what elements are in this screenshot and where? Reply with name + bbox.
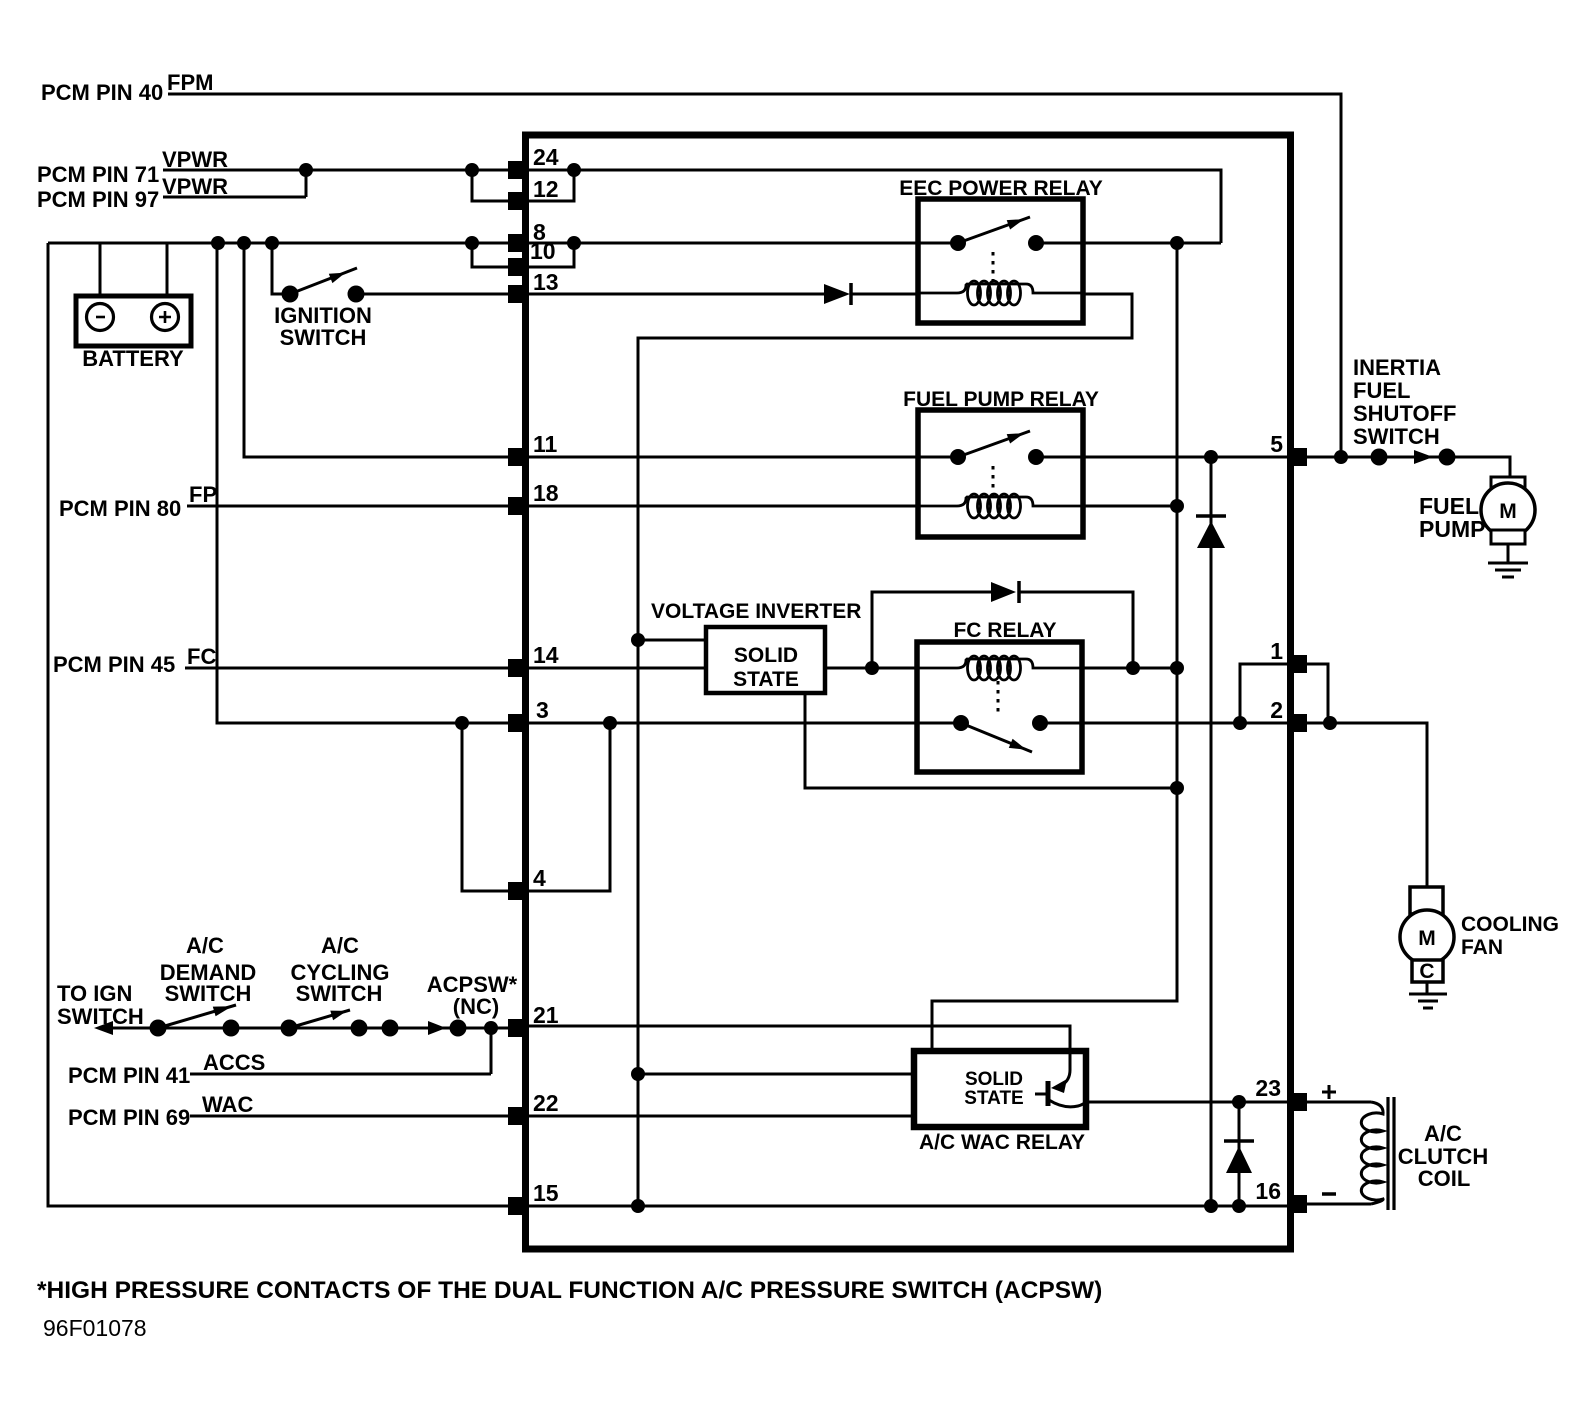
wire jumper pin1 to pin2 inside: [1240, 664, 1288, 723]
big box PCM connector: [526, 135, 1291, 1249]
svg-text:ACCS: ACCS: [203, 1050, 265, 1075]
wire bypass diode branch right leg: [1019, 592, 1133, 668]
plus mark at pin 23: [1322, 1085, 1336, 1099]
ground at fuel pump: [1488, 563, 1528, 577]
svg-text:VOLTAGE INVERTER: VOLTAGE INVERTER: [651, 600, 861, 623]
svg-text:FC RELAY: FC RELAY: [953, 619, 1056, 642]
svg-text:PCM PIN 40: PCM PIN 40: [41, 80, 163, 105]
junction FC coil line to long vertical: [1170, 661, 1184, 675]
EEC switch contacts: [950, 235, 966, 251]
svg-text:13: 13: [533, 269, 559, 295]
wire A/C switch chain to pin 21: [108, 1027, 510, 1030]
EEC dotted actuator link: [992, 252, 995, 286]
pin 21 terminal square: [508, 1019, 527, 1037]
wire bypass diode branch left leg: [872, 592, 991, 668]
svg-text:A/C: A/C: [1424, 1121, 1462, 1146]
arrowhead to ignition switch off-page: [94, 1021, 113, 1035]
svg-text:M: M: [1418, 927, 1436, 950]
svg-text:3: 3: [536, 697, 549, 723]
wire pin23 outside to clutch coil: [1306, 1101, 1371, 1104]
A/C demand switch: [150, 1005, 240, 1037]
pin 13 terminal square: [508, 285, 527, 303]
wire pin15 to pin16 inside run: [527, 1205, 1288, 1208]
junction battery bus to ignition switch: [265, 236, 279, 250]
wire battery negative drop: [99, 243, 102, 296]
pin 10 terminal square: [508, 258, 527, 276]
junction pin 3 inside jumper: [603, 716, 617, 730]
wire clutch diode branch: [1238, 1102, 1241, 1206]
wire jumper pin3 to pin4 inside: [527, 723, 610, 891]
svg-text:A/C: A/C: [321, 933, 359, 958]
svg-text:22: 22: [533, 1090, 559, 1116]
inertia fuel shutoff switch: [1371, 449, 1456, 466]
svg-text:FPM: FPM: [167, 70, 213, 95]
pin 22 terminal square: [508, 1107, 527, 1125]
wire battery bus to pin 8: [48, 242, 524, 245]
diode on 1211 vertical: [1196, 514, 1226, 518]
wire pin11 inside run: [527, 456, 918, 459]
fuel pump motor: [1481, 477, 1535, 563]
diode across A/C clutch coil: [1224, 1139, 1254, 1143]
junction pin 8 inside jumper: [567, 236, 581, 250]
EEC relay internals: [918, 217, 1083, 286]
wire pin13 inside run to diode: [527, 293, 824, 296]
svg-text:15: 15: [533, 1180, 559, 1206]
wire jumper pin24 to pin12 inside: [527, 170, 574, 201]
svg-text:12: 12: [533, 176, 559, 202]
junction ACCS tap on ACPSW line: [484, 1021, 498, 1035]
svg-text:10: 10: [530, 238, 556, 264]
svg-text:18: 18: [533, 480, 559, 506]
relay box FC relay: [917, 642, 1082, 772]
pin 11 terminal square: [508, 448, 527, 466]
pin 8 terminal square: [508, 234, 527, 252]
svg-text:SWITCH: SWITCH: [280, 325, 367, 350]
svg-text:SWITCH: SWITCH: [296, 981, 383, 1006]
svg-text:PCM PIN 41: PCM PIN 41: [68, 1063, 190, 1088]
pin 23 terminal square: [1288, 1093, 1307, 1111]
svg-text:A/C WAC RELAY: A/C WAC RELAY: [919, 1131, 1085, 1154]
svg-text:INERTIA: INERTIA: [1353, 355, 1441, 380]
pin number labels: [530, 144, 1283, 1206]
svg-text:STATE: STATE: [964, 1088, 1023, 1109]
wire left ground rail: [48, 243, 510, 1206]
FPR coil loops: [918, 494, 1083, 518]
wire inverter output to FC coil: [825, 667, 917, 670]
ignition switch: [282, 268, 365, 303]
minus mark at pin 16: [1322, 1192, 1336, 1196]
svg-text:SWITCH: SWITCH: [165, 981, 252, 1006]
FC switch line stubs: [917, 722, 1082, 725]
A/C cycling switch: [281, 1010, 368, 1037]
svg-text:SWITCH: SWITCH: [57, 1004, 144, 1029]
wire ACCS line PCM PIN 41: [190, 1028, 491, 1074]
wire EEC coil out down-left to long vertical: [638, 294, 1132, 1206]
svg-text:FC: FC: [187, 644, 216, 669]
pin 3 terminal square: [508, 714, 527, 732]
EEC coil loops: [918, 281, 1083, 305]
svg-text:SWITCH: SWITCH: [1353, 424, 1440, 449]
svg-text:EEC POWER RELAY: EEC POWER RELAY: [899, 177, 1102, 200]
svg-text:VPWR: VPWR: [162, 174, 228, 199]
relay box fuel pump relay: [918, 410, 1083, 537]
relay box EEC power relay: [918, 199, 1083, 323]
svg-text:FP: FP: [189, 482, 217, 507]
ACPSW NC switch: [382, 1020, 467, 1037]
wire pin2 outside to cooling fan: [1306, 723, 1427, 887]
wire diode branch from pin5 line down: [1210, 457, 1213, 1206]
FPR switch arm: [958, 431, 1030, 457]
svg-text:4: 4: [533, 865, 546, 891]
junction bypass diode return to FC coil: [1126, 661, 1140, 675]
wire pin18 inside run: [527, 505, 918, 508]
EEC switch arm: [958, 217, 1030, 243]
junction FPR coil output: [1170, 499, 1184, 513]
junction pin 5 line to diode branch: [1204, 450, 1218, 464]
svg-text:2: 2: [1270, 697, 1283, 723]
wire jumper pin8 to pin10 inside: [527, 243, 574, 267]
junction inverter output to bypass diode: [865, 661, 879, 675]
FPR dotted actuator link: [992, 466, 995, 498]
junction pin 3 to pin 4 outside jumper: [455, 716, 469, 730]
wire inverter bottom output: [805, 693, 1177, 788]
svg-text:11: 11: [533, 431, 558, 457]
svg-text:BATTERY: BATTERY: [82, 346, 184, 371]
pin 2 terminal square: [1288, 714, 1307, 732]
pin 16 terminal square: [1288, 1195, 1307, 1213]
wire ignition switch feed drop: [272, 243, 283, 294]
svg-text:96F01078: 96F01078: [43, 1315, 147, 1341]
junction long vertical to pin 15 line: [631, 1199, 645, 1213]
svg-text:WAC: WAC: [202, 1092, 253, 1117]
wire jumper pin3 to pin4 outside: [462, 723, 510, 891]
pin 14 terminal square: [508, 659, 527, 677]
wire EEC relay contact output: [1036, 242, 1221, 245]
wire battery positive drop: [166, 243, 169, 296]
svg-text:FAN: FAN: [1461, 936, 1503, 959]
wire WAC line PCM PIN 69 to pin 22: [190, 1115, 524, 1118]
svg-text:PUMP: PUMP: [1419, 516, 1485, 542]
svg-text:A/C: A/C: [186, 933, 224, 958]
junction EEC output to long vertical: [1170, 236, 1184, 250]
svg-text:PCM PIN 97: PCM PIN 97: [37, 187, 159, 212]
svg-text:STATE: STATE: [733, 668, 799, 691]
junction FPM line to pin 5 line: [1334, 450, 1348, 464]
svg-text:SOLID: SOLID: [965, 1069, 1023, 1090]
wire long vertical 1177 to WAC relay: [932, 243, 1177, 1051]
svg-text:COIL: COIL: [1418, 1166, 1471, 1191]
svg-text:FUEL: FUEL: [1353, 378, 1410, 403]
pin 1 terminal square: [1288, 655, 1307, 673]
wire pin8 inside run to EEC relay: [527, 242, 918, 245]
svg-text:5: 5: [1270, 431, 1283, 457]
wire pin24 inside run: [527, 170, 1221, 243]
box A/C WAC relay solid state: [914, 1051, 1086, 1127]
pin 15 terminal square: [508, 1197, 527, 1215]
battery B1: [76, 296, 191, 346]
box voltage inverter solid state: [706, 627, 825, 693]
svg-text:FUEL PUMP RELAY: FUEL PUMP RELAY: [903, 388, 1099, 411]
FC switch arrowhead: [1009, 739, 1027, 750]
wire VPWR from PCM PIN 97: [163, 170, 306, 197]
svg-text:COOLING: COOLING: [1461, 913, 1559, 936]
wire FP line PCM PIN 80: [187, 505, 524, 508]
junction battery bus to pin 11 feed: [237, 236, 251, 250]
wire ignition switch output to pin 13: [356, 293, 510, 296]
pin 18 terminal square: [508, 497, 527, 515]
pin 24 terminal square: [508, 161, 527, 179]
wire WAC output to pin 23: [1086, 1101, 1288, 1104]
svg-text:21: 21: [533, 1002, 559, 1028]
svg-text:*HIGH PRESSURE CONTACTS OF THE: *HIGH PRESSURE CONTACTS OF THE DUAL FUNC…: [37, 1277, 1102, 1304]
junction pin 24 inside jumper: [567, 163, 581, 177]
svg-text:SHUTOFF: SHUTOFF: [1353, 401, 1456, 426]
wire VPWR net from PCM PIN 71: [163, 169, 524, 172]
FC dotted actuator link: [997, 681, 1000, 714]
junction VPWR to pin 12 jumper: [465, 163, 479, 177]
pin squares right edge: [1288, 448, 1307, 1213]
svg-text:14: 14: [533, 642, 559, 668]
FPR switch arrowhead: [1007, 433, 1024, 443]
svg-text:SOLID: SOLID: [734, 644, 798, 667]
diode in bypass branch: [991, 582, 1016, 602]
wire pin3 inside run FC switch line to pin 2: [527, 722, 1288, 725]
svg-text:PCM PIN 69: PCM PIN 69: [68, 1105, 190, 1130]
wire long vertical feed to WAC box: [638, 1073, 914, 1076]
wire diode to EEC coil: [852, 293, 918, 296]
svg-text:PCM PIN 45: PCM PIN 45: [53, 652, 175, 677]
wire FPR contact output to pin 5: [1083, 456, 1288, 459]
junction VPWR pin71/pin97 tie: [299, 163, 313, 177]
wire FPR coil output: [1083, 505, 1177, 508]
FC switch arm: [961, 723, 1032, 752]
wire pin5 outside to inertia switch and fuel pump: [1306, 457, 1510, 477]
FPR relay internals: [918, 431, 1083, 498]
svg-text:PCM PIN 80: PCM PIN 80: [59, 496, 181, 521]
wire FPM net from PCM PIN 40: [168, 94, 1341, 457]
wire jumper pin24 to pin12 outside: [472, 170, 510, 201]
diode on pin13 line: [824, 284, 850, 304]
pin 12 terminal square: [508, 192, 527, 210]
wire FC line PCM PIN 45: [185, 667, 524, 670]
pin 4 terminal square: [508, 882, 527, 900]
junction pin 2 line to pin 1 jumper outside: [1323, 716, 1337, 730]
svg-text:PCM PIN 71: PCM PIN 71: [37, 162, 159, 187]
svg-text:C: C: [1419, 960, 1434, 983]
FC switch contacts: [953, 715, 969, 731]
junction pin 23 line to clutch diode: [1232, 1095, 1246, 1109]
svg-text:M: M: [1499, 500, 1517, 523]
junction diode branch to pin 16 line: [1204, 1199, 1218, 1213]
wire jumper pin8 to pin10 outside: [472, 243, 510, 267]
junction inverter input tap: [631, 633, 645, 647]
svg-text:23: 23: [1255, 1075, 1281, 1101]
WAC relay transistor: [1035, 1048, 1090, 1107]
ground at cooling fan: [1409, 994, 1447, 1008]
junction long vertical to WAC feed: [631, 1067, 645, 1081]
FPR switch contacts: [950, 449, 966, 465]
svg-text:(NC): (NC): [453, 994, 499, 1019]
junction inverter bottom output: [1170, 781, 1184, 795]
FC coil loops: [917, 656, 1082, 680]
svg-text:TO IGN: TO IGN: [57, 981, 132, 1006]
junction bus to pin 10 jumper: [465, 236, 479, 250]
wire pin16 outside to clutch coil: [1306, 1203, 1371, 1206]
svg-text:16: 16: [1255, 1178, 1281, 1204]
junction pin 2 line to pin 1 jumper inside: [1233, 716, 1247, 730]
svg-text:1: 1: [1270, 638, 1283, 664]
junction battery bus to pin 3 feed: [211, 236, 225, 250]
FC relay internals: [917, 681, 1082, 752]
wire inverter top input: [638, 639, 706, 642]
wire pin21 inside run to WAC transistor: [527, 1026, 1070, 1072]
A/C clutch coil: [1361, 1097, 1394, 1210]
junction clutch diode to pin 16 line: [1232, 1199, 1246, 1213]
wire pin3 feed from battery bus: [217, 243, 524, 723]
svg-text:VPWR: VPWR: [162, 147, 228, 172]
wire pin22 inside run: [527, 1115, 914, 1118]
EEC switch line stubs: [918, 242, 1083, 245]
pin 5 terminal square: [1288, 448, 1307, 466]
svg-text:24: 24: [533, 144, 559, 170]
EEC switch arrowhead: [1007, 219, 1024, 229]
pin squares left edge: [508, 161, 527, 1215]
wire FC coil output: [1082, 667, 1177, 670]
wire jumper pin1 to pin2 outside: [1306, 664, 1328, 723]
wire pin14 inside run to inverter: [527, 667, 706, 670]
cooling fan motor: [1400, 887, 1454, 994]
wire fuel pump relay feed from battery bus: [244, 243, 524, 457]
